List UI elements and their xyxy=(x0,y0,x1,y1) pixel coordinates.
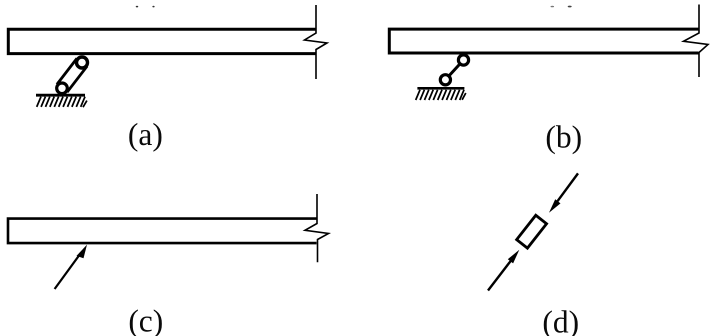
link rectangle (d) xyxy=(517,215,547,248)
svg-text:(c): (c) xyxy=(128,303,163,336)
beam (b) xyxy=(389,29,698,53)
ground hatching (b) xyxy=(416,90,466,100)
stray dot 1 (cropped text remnant) xyxy=(136,6,139,8)
member line lower (d) xyxy=(488,259,513,291)
svg-text:(a): (a) xyxy=(128,117,163,152)
label (a) xyxy=(128,117,163,152)
beam (a) xyxy=(8,29,315,53)
member line upper (d) xyxy=(556,173,578,203)
break line (c) xyxy=(305,194,329,262)
pin circle bottom (a) xyxy=(57,83,68,94)
arrowhead upper (d) xyxy=(549,199,561,213)
stray mark (cropped text remnant) xyxy=(551,6,555,8)
svg-text:(b): (b) xyxy=(545,119,582,154)
ground line (a) xyxy=(36,94,85,97)
svg-text:(d): (d) xyxy=(542,304,579,336)
ground hatching (a) xyxy=(37,97,87,108)
arrowhead lower (d) xyxy=(508,250,520,264)
label (d) xyxy=(542,304,579,336)
stray mark 2 (cropped text remnant) xyxy=(568,6,572,8)
stray dot 2 (cropped text remnant) xyxy=(152,6,154,8)
link bar (a) xyxy=(57,58,87,92)
label (c) xyxy=(128,303,163,336)
break line (a) xyxy=(305,5,328,79)
beam (c) xyxy=(8,219,317,244)
pin circle top (a) xyxy=(77,57,88,68)
pin circle top (b) xyxy=(458,55,468,65)
force arrow (c) xyxy=(55,245,87,289)
break line (b) xyxy=(684,5,709,78)
pin circle bottom (b) xyxy=(440,75,450,85)
label (b) xyxy=(545,119,582,154)
ground line (b) xyxy=(417,87,464,90)
link bar (b) xyxy=(445,60,463,80)
